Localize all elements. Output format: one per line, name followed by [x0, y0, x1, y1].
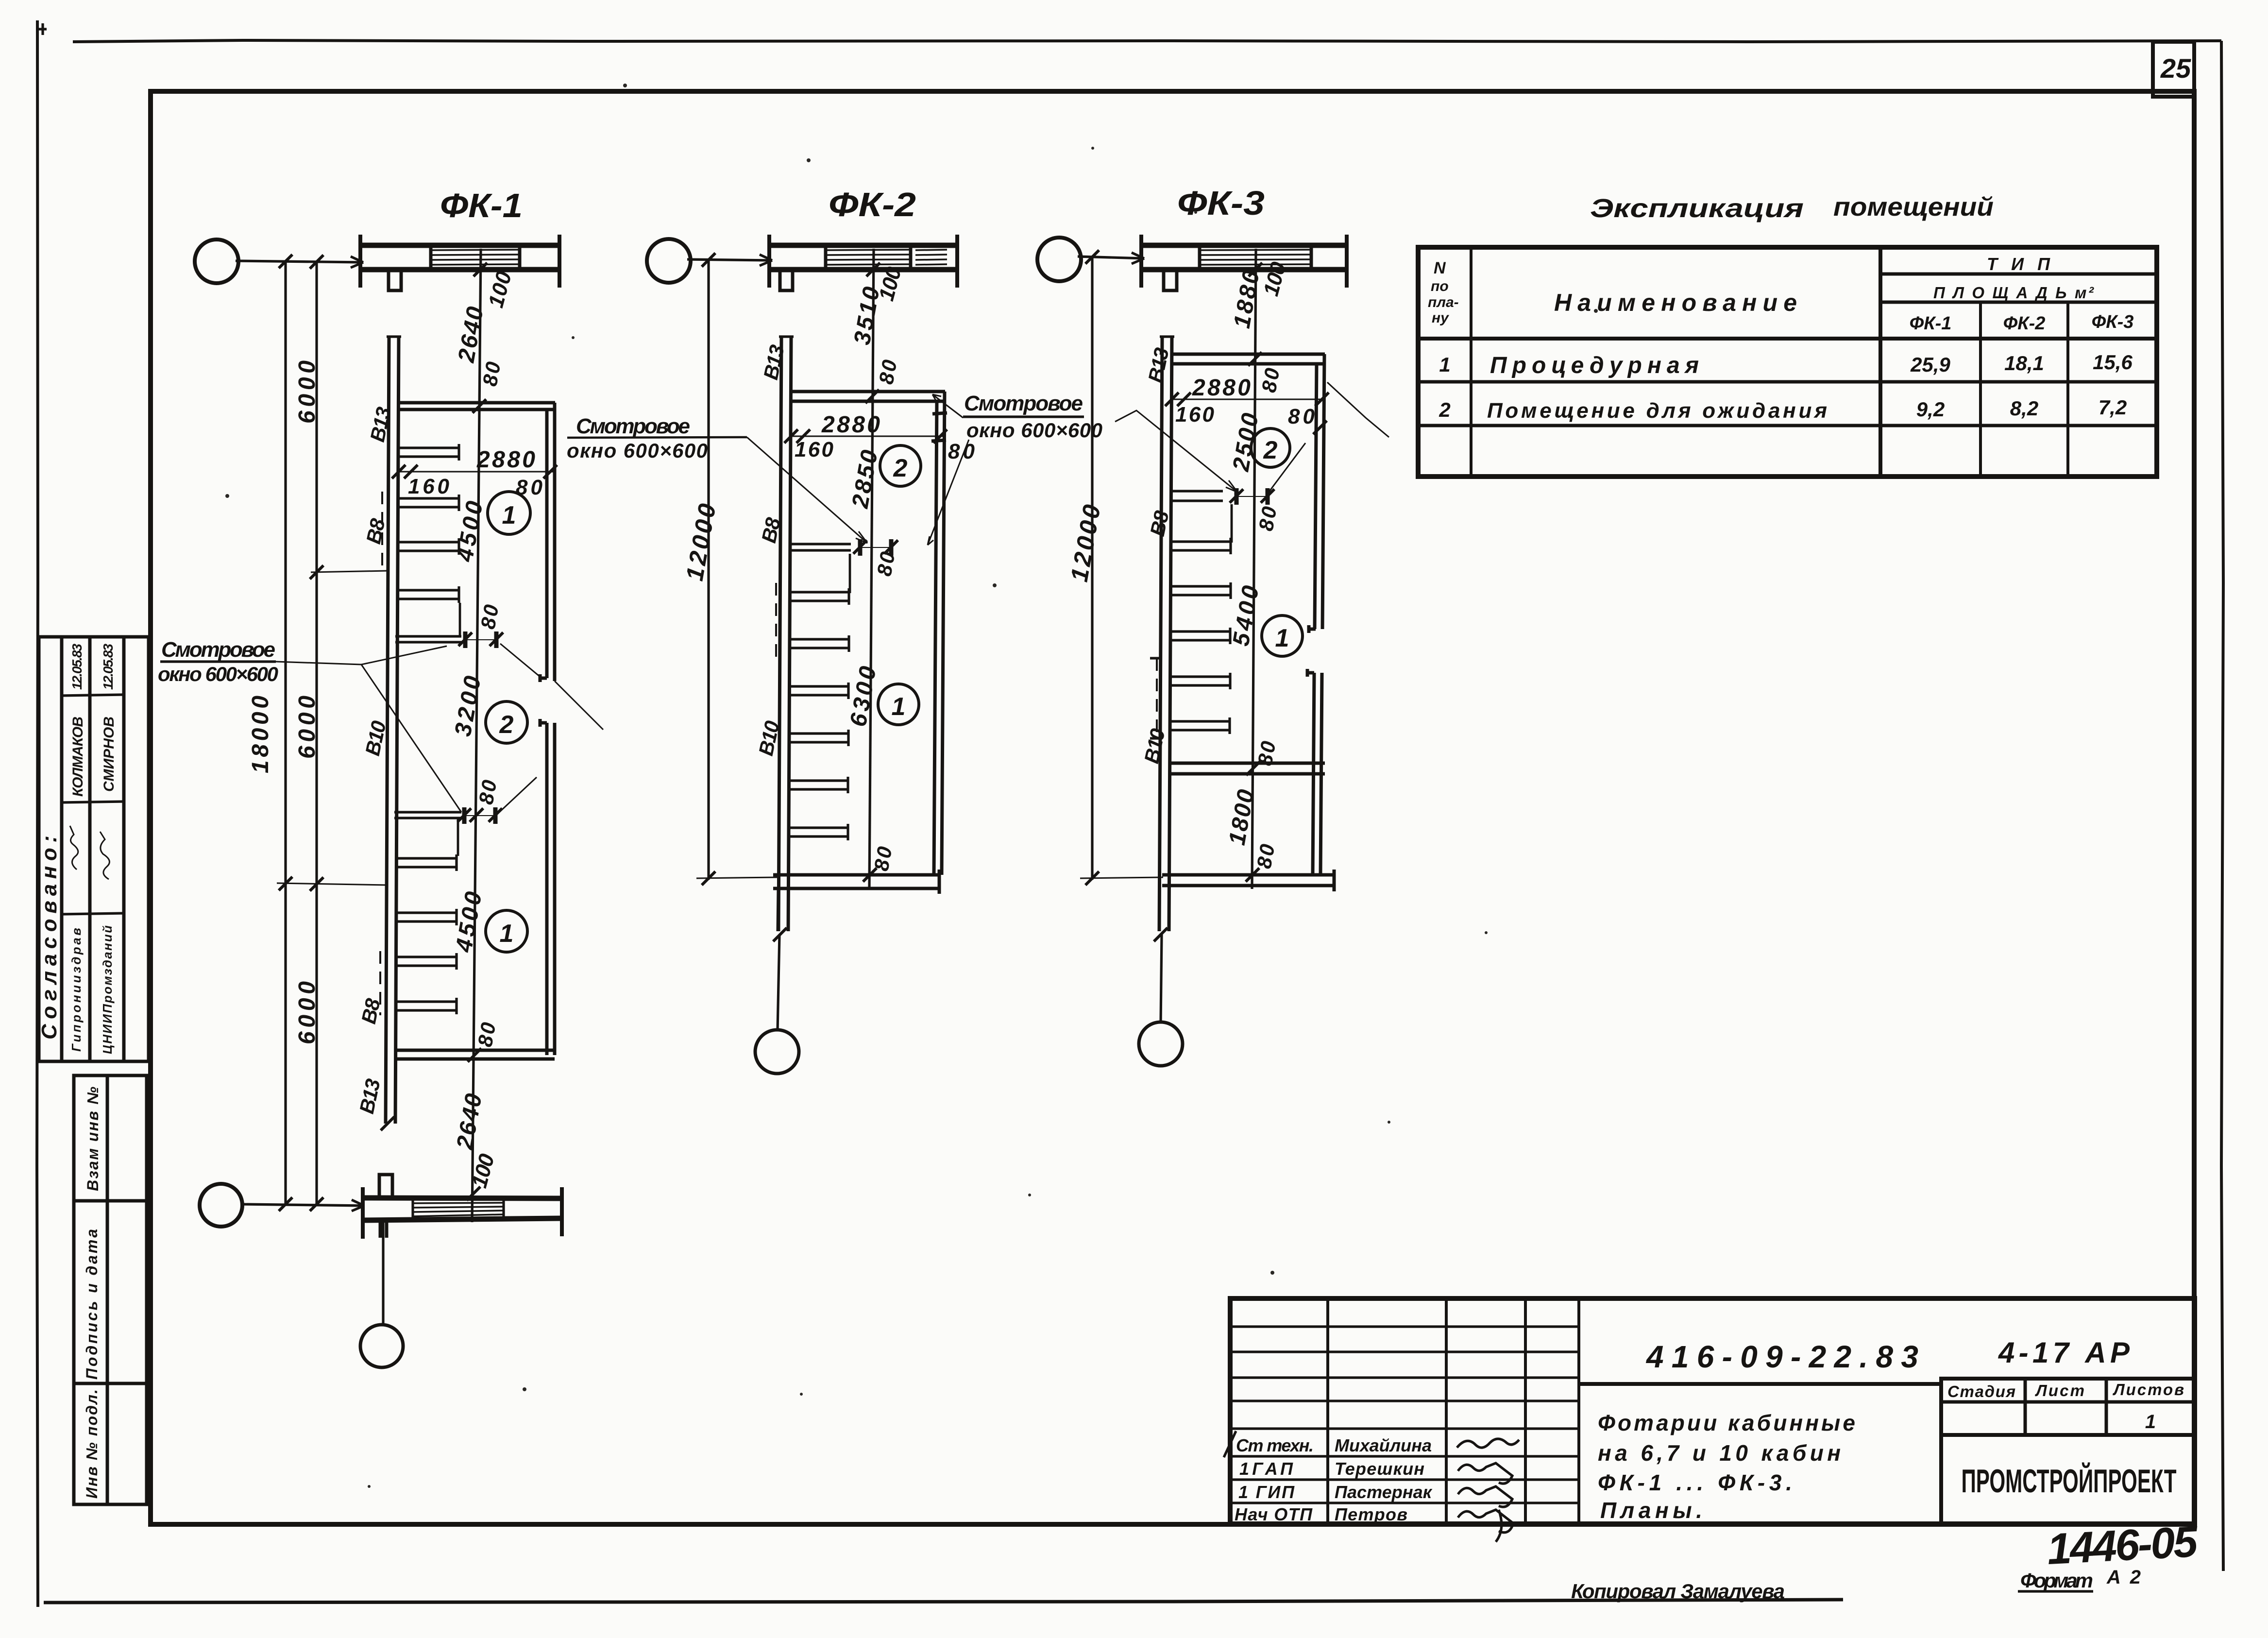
right wall lower foot [1307, 669, 1314, 677]
underline under Формат [2018, 1590, 2093, 1592]
right wall A foot [540, 674, 547, 682]
svg-text:1: 1 [1439, 353, 1450, 376]
cabin partition a3 [399, 538, 459, 555]
svg-text:ну: ну [1432, 310, 1449, 326]
chain ticks [1249, 263, 1262, 276]
dashed duct line [775, 583, 777, 661]
signature Пастернак [1458, 1486, 1512, 1507]
right wall [934, 392, 945, 875]
svg-text:12.05.83: 12.05.83 [69, 644, 85, 690]
svg-text:ПРОМСТРОЙПРОЕКТ: ПРОМСТРОЙПРОЕКТ [1961, 1463, 2176, 1500]
svg-text:9,2: 9,2 [1916, 398, 1945, 421]
svg-text:ФК-3: ФК-3 [1177, 184, 1265, 222]
signature squiggle col2 [100, 832, 109, 879]
duct stub left [1150, 658, 1162, 738]
2880 ticks [1165, 392, 1179, 406]
dim line 6000 chain [315, 262, 318, 1205]
dim line 12000 [707, 259, 710, 880]
svg-text:160: 160 [408, 475, 450, 498]
top wall band outline [1141, 243, 1347, 248]
svg-text:Копировал Замалуева: Копировал Замалуева [1571, 1580, 1785, 1603]
axis drop to bubble [1161, 935, 1162, 1023]
top wall band outline [360, 243, 559, 248]
svg-text:ФК-3: ФК-3 [2092, 312, 2134, 332]
spine bottom tick [1154, 928, 1168, 941]
axis bubble top-left [647, 239, 691, 283]
svg-text:Петров: Петров [1335, 1504, 1407, 1524]
signature Михайлина [1457, 1439, 1519, 1448]
window dim ticks [1230, 489, 1243, 503]
window wall [1171, 491, 1223, 501]
titleblock outer frame [1230, 1298, 2195, 1524]
svg-text:Согласовано:: Согласовано: [37, 836, 61, 1040]
svg-text:N: N [1434, 259, 1446, 277]
svg-text:2: 2 [1439, 398, 1450, 421]
viewing window 2 symbol [464, 807, 495, 824]
12000 end tick [1085, 871, 1099, 885]
стадия-лист rows [1941, 1400, 2195, 1404]
tick on axis [702, 253, 715, 267]
axis line bottom [240, 1204, 364, 1206]
svg-text:160: 160 [795, 438, 834, 461]
svg-text:25,9: 25,9 [1910, 353, 1950, 376]
dim line 18000 [284, 261, 287, 1205]
window wall 2 [394, 812, 461, 818]
svg-text:СМИРНОВ: СМИРНОВ [101, 717, 117, 792]
svg-text:1: 1 [1275, 624, 1289, 652]
lower stamp divider column [106, 1075, 109, 1504]
axis bubble top-left [1037, 238, 1081, 281]
cabin partition 1 [790, 588, 849, 605]
TABLE [1418, 192, 2157, 477]
svg-text:Терешкин: Терешкин [1335, 1459, 1424, 1479]
page number box [2153, 42, 2194, 97]
door swing at window2 [499, 777, 537, 812]
chain ticks [866, 263, 880, 276]
cabin front wall below window2 [457, 818, 459, 856]
top wall band outline [769, 243, 957, 248]
cabin partition b4 [397, 998, 457, 1014]
top wall end ticks [769, 235, 957, 288]
approval stamp box [39, 637, 149, 1061]
svg-text:1: 1 [500, 920, 514, 948]
svg-text:18000: 18000 [248, 696, 273, 773]
chain ticks [474, 263, 487, 276]
door swing from circle2 [1267, 443, 1305, 495]
outer scan border bottom [44, 1600, 1843, 1603]
svg-text:окно 600×600: окно 600×600 [158, 663, 278, 685]
cabin spine wall [779, 337, 791, 931]
viewing window symbol [1236, 488, 1268, 505]
svg-text:8,2: 8,2 [2010, 397, 2038, 420]
cabin partition 4 [789, 730, 848, 746]
dim 2880 line [399, 471, 555, 473]
outer scan border top [73, 40, 2221, 42]
right wall door foot [1309, 625, 1316, 633]
top wall glazing [826, 250, 911, 265]
svg-text:7,2: 7,2 [2099, 396, 2127, 419]
approval stamp inner columns [62, 637, 124, 1061]
svg-text:1ГАП: 1ГАП [1239, 1459, 1293, 1479]
signature Терешкин [1458, 1463, 1512, 1484]
lower stamp box [74, 1075, 147, 1504]
cabin partition 2 [790, 635, 849, 652]
right part box [1941, 1379, 2195, 1524]
top wall inner dividers [431, 245, 520, 270]
12000 connector [1080, 877, 1163, 878]
svg-text:2: 2 [893, 454, 908, 482]
table data row lines [1418, 380, 2157, 384]
bottom wall right tick [1333, 870, 1336, 891]
window dim ticks [853, 540, 867, 554]
cabin partition 4 [1171, 673, 1230, 689]
axis drop line below wall [382, 1220, 384, 1326]
right wall segment A [547, 403, 555, 681]
svg-text:Михайлина: Михайлина [1335, 1435, 1432, 1455]
room2 top wall [1172, 354, 1325, 364]
svg-text:18,1: 18,1 [2004, 352, 2044, 375]
cabin partition 5 [789, 777, 848, 793]
ticks on axis line [279, 255, 292, 268]
dim line 12000 [1091, 256, 1093, 880]
axis arrow [760, 255, 772, 266]
divider under doc number [1579, 1382, 1943, 1386]
outer scan border left [37, 20, 38, 1607]
annotation underline [160, 660, 276, 663]
cabin partition b2 [397, 909, 457, 925]
cabin spine wall [1159, 337, 1172, 931]
tick on axis [1085, 250, 1099, 264]
room1 bottom wall [1171, 763, 1325, 774]
svg-text:ФК-1: ФК-1 [1910, 313, 1952, 334]
leader to windows [276, 646, 447, 665]
svg-text:Лист: Лист [2035, 1382, 2084, 1399]
room circle 1 [878, 684, 919, 725]
right wall upper [1315, 354, 1324, 629]
svg-text:КОЛМАКОВ: КОЛМАКОВ [70, 717, 86, 797]
svg-text:Смотровое: Смотровое [161, 638, 275, 662]
viewing window symbol [860, 539, 891, 556]
bottom axis arrow [352, 1200, 364, 1211]
leader to right wall window [932, 394, 963, 418]
dashed duct line lower [379, 951, 381, 1015]
axis drop to bubble [778, 935, 779, 1031]
leader arrowhead [856, 531, 867, 543]
axis bubble bottom [360, 1325, 403, 1367]
annotation underline [963, 415, 1084, 418]
bottom wall pier stub [379, 1175, 392, 1198]
svg-text:15,6: 15,6 [2093, 351, 2133, 374]
room circle 2 [1251, 428, 1290, 467]
spine below bottom wall [778, 888, 779, 931]
TITLEBLOCK [1224, 1298, 2200, 1603]
dim 2880 line [1172, 399, 1324, 400]
signature Петров [1458, 1510, 1513, 1542]
svg-text:Взам инв №: Взам инв № [84, 1087, 102, 1191]
bottom wall glazing [413, 1203, 504, 1216]
bottom end wall [1162, 875, 1334, 886]
cabin partition b3 [397, 953, 457, 970]
room circle 2 [486, 701, 527, 743]
svg-text:Формат: Формат [2020, 1569, 2093, 1592]
svg-text:Ст техн.: Ст техн. [1236, 1435, 1314, 1455]
cabin partition 2 [1171, 582, 1231, 599]
chain dim line [472, 249, 481, 1222]
dashed duct line upper [381, 492, 383, 571]
cabin wall bottom ticks [381, 1117, 394, 1130]
svg-text:Смотровое: Смотровое [964, 392, 1083, 415]
room circle 1a [488, 492, 530, 534]
spine wall top cap [779, 335, 794, 338]
titleblock left rows [1230, 1327, 1579, 1401]
svg-text:окно 600×600: окно 600×600 [567, 439, 708, 462]
mid window wall [790, 544, 851, 550]
svg-text:2: 2 [499, 711, 514, 739]
cabin partition 5 [1170, 717, 1230, 734]
spine wall top cap [1160, 335, 1174, 338]
cabin partition a4 [399, 586, 459, 603]
door swing at right wall A [555, 681, 603, 730]
svg-text:1: 1 [892, 693, 906, 721]
svg-text:Т И П: Т И П [1987, 254, 2050, 274]
top wall end ticks [360, 235, 559, 288]
svg-text:окно 600×600: окно 600×600 [966, 419, 1102, 442]
svg-text:ФК-2: ФК-2 [829, 186, 916, 223]
bottom wall inner dividers [413, 1198, 504, 1220]
cabin front wall above window1 [459, 603, 461, 636]
svg-text:Нач ОТП: Нач ОТП [1235, 1504, 1313, 1524]
lower stamp row dividers [74, 1201, 147, 1383]
top wall glazing [1200, 250, 1311, 265]
PLAN-FK2 [647, 186, 1102, 1074]
dashed duct line [1156, 658, 1158, 738]
cabin partition 3 [1171, 628, 1230, 644]
svg-text:Пастернак: Пастернак [1335, 1482, 1433, 1502]
top wall pier stub [780, 270, 793, 290]
svg-text:160: 160 [1175, 403, 1215, 427]
svg-text:по: по [1431, 278, 1449, 294]
axis line arrow at wall [351, 256, 363, 268]
leader from fk2 annotation to window [1115, 410, 1237, 492]
table header rows [1880, 273, 2157, 276]
dim 2880 line [791, 436, 945, 437]
2880 ticks [784, 429, 798, 443]
viewing window 1 symbol [465, 631, 496, 648]
svg-text:ФК-2: ФК-2 [2003, 313, 2046, 334]
cabin front wall below window fk2 [849, 554, 851, 593]
svg-text:помещений: помещений [1833, 192, 1994, 222]
room2 top wall [791, 392, 945, 401]
svg-text:1: 1 [2145, 1411, 2156, 1433]
top wall pier stub [389, 270, 401, 290]
svg-text:2: 2 [1263, 436, 1278, 464]
PLAN-FK3 [1037, 184, 1389, 1066]
svg-text:на 6,7 и 10 кабин: на 6,7 и 10 кабин [1598, 1440, 1841, 1466]
leader from fk1 annotation to mid window [747, 437, 867, 543]
approval stamp inner rows [62, 695, 124, 914]
window wall 1 [395, 636, 461, 642]
axis line top [236, 261, 363, 262]
chain dim line [869, 249, 874, 889]
svg-text:Смотровое: Смотровое [576, 414, 690, 438]
window2 dim ticks [457, 808, 471, 822]
top wall inner dividers [1200, 245, 1311, 270]
connector at 6000 mark2 [277, 883, 388, 885]
right wall B foot [540, 719, 547, 727]
top wall inner dividers [826, 245, 911, 270]
window marks on right wall top [931, 413, 947, 441]
cabin partition 1 [1171, 538, 1231, 554]
axis line top [687, 259, 772, 260]
svg-text:П Л О Щ А Д Ь м²: П Л О Щ А Д Ь м² [1933, 284, 2094, 302]
svg-text:12.05.83: 12.05.83 [101, 644, 116, 690]
cabin partition b1 [397, 854, 457, 871]
LEFT-STAMPS [37, 637, 149, 1504]
signature squiggle col1 [70, 826, 78, 870]
svg-text:Экспликация: Экспликация [1590, 194, 1804, 223]
bottom wall band outline [363, 1198, 562, 1198]
svg-text:ФК-1: ФК-1 [440, 187, 523, 224]
titleblock left columns [1328, 1298, 1579, 1524]
room1b bottom wall [395, 1050, 555, 1059]
svg-text:25: 25 [2160, 53, 2191, 84]
spine wall bottom tick [773, 928, 787, 941]
стадия-лист columns [2025, 1379, 2106, 1435]
room1a top wall [398, 403, 555, 409]
svg-text:1446-05: 1446-05 [2046, 1518, 2200, 1574]
leader to mid window [928, 440, 969, 545]
axis bubble top-left [195, 239, 238, 283]
cabin partition 3 [789, 682, 848, 699]
right wall lower [1313, 673, 1322, 875]
svg-text:ЦНИИПромзданий: ЦНИИПромзданий [100, 925, 115, 1054]
door swing top-right [1327, 382, 1389, 437]
outer scan border right [2221, 41, 2223, 1571]
12000 end tick [702, 871, 715, 885]
cabin partition a2 [399, 495, 459, 511]
top wall end ticks [1141, 235, 1347, 288]
svg-text:1: 1 [502, 501, 516, 529]
connector at 6000 mark1 [311, 571, 388, 572]
room circle 1b [486, 910, 527, 952]
PLAN-FK1 [158, 187, 747, 1367]
SPECKS [225, 84, 1598, 1488]
table column lines [1470, 247, 1473, 477]
svg-text:пла-: пла- [1428, 294, 1459, 310]
12000 connector [696, 877, 777, 878]
axis bubble bottom-left [200, 1184, 242, 1227]
cabin partition 6 [789, 824, 848, 840]
annotation underline right [567, 437, 747, 438]
svg-text:416-09-22.83: 416-09-22.83 [1645, 1339, 1918, 1374]
right wall segment B [547, 723, 555, 1055]
top wall glazing lines [431, 250, 520, 265]
room circle 2 [880, 445, 921, 486]
cabin spine wall top cap [387, 335, 401, 338]
svg-text:Процедурная: Процедурная [1490, 353, 1699, 378]
cabin partition a1 [399, 444, 459, 461]
window1 dim ticks [458, 632, 472, 646]
cabin spine wall [386, 337, 399, 1124]
bottom wall [773, 875, 939, 888]
table outer frame [1418, 247, 2157, 477]
axis bubble bottom [1139, 1022, 1183, 1066]
leader arrowhead [1226, 480, 1237, 492]
room circle 1 [1262, 615, 1303, 656]
axis line top [1078, 256, 1144, 258]
top wall glazing right [915, 250, 947, 265]
axis arrow [1132, 253, 1144, 264]
2880 line ticks [392, 465, 406, 478]
door swing at window1 [500, 644, 541, 677]
chain dim line [1252, 249, 1256, 889]
bottom wall end ticks [363, 1187, 562, 1239]
bottom wall right tick [938, 870, 941, 894]
main frame [151, 91, 2194, 1524]
slash before Ст техн [1224, 1431, 1236, 1457]
top wall pier stub [1164, 270, 1177, 290]
svg-text:Инв № подл.: Инв № подл. [83, 1389, 101, 1499]
axis bubble bottom [755, 1030, 799, 1074]
ticks at 80 pair near room2 top [1315, 392, 1329, 406]
ticks on 6000 chain [310, 565, 323, 579]
corner mark top-left [39, 23, 47, 35]
cabin front wall below window fk3 [1231, 504, 1233, 543]
